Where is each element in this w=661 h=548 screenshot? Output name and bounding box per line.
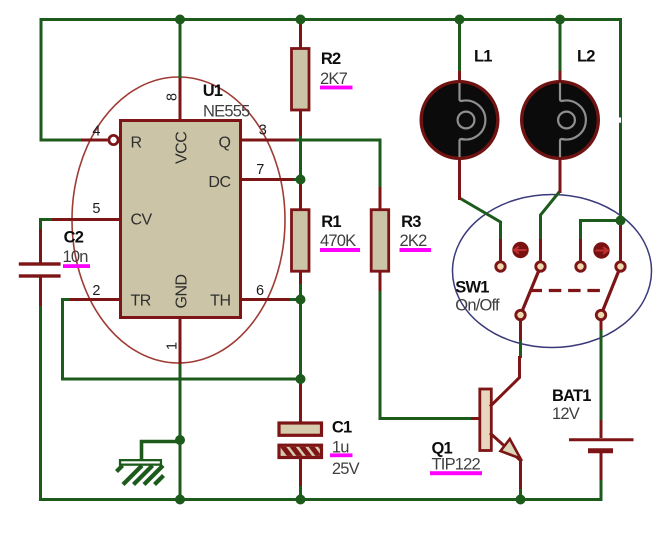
wire: VCC top rail from left rail corner to right drop (41, 20, 621, 225)
wire: ground symbol branch (142, 442, 181, 461)
svg-text:DC: DC (208, 174, 230, 191)
junction dot bottom rail at GND (175, 495, 185, 505)
SW1 gang dashed link (530, 289, 607, 292)
svg-text:C1: C1 (332, 419, 352, 437)
SW1 knob 2 with right arrow (593, 242, 609, 258)
svg-text:5: 5 (92, 201, 100, 217)
wire: switch pole 1 to Q1 collector (519, 338, 522, 358)
battery BAT1 (569, 420, 634, 480)
wire: pin 6 TH to node (288, 298, 301, 301)
wire: switch pole 2 to battery positive (600, 328, 603, 421)
U1 pin 6 TH stub (241, 298, 290, 301)
svg-text:Q: Q (219, 135, 231, 152)
svg-text:BAT1: BAT1 (552, 387, 591, 405)
junction dot VCC rail at L2 (555, 15, 565, 25)
junction dot bottom rail at Q1 emitter (516, 495, 526, 505)
wire: CV to C2 (41, 220, 53, 232)
underline 10n (63, 264, 90, 268)
svg-text:TH: TH (210, 293, 230, 310)
svg-text:25V: 25V (332, 460, 360, 478)
svg-text:3: 3 (259, 123, 267, 139)
transistor Q1 TIP122 (471, 356, 521, 489)
svg-text:NE555: NE555 (203, 103, 250, 121)
U1 pin 7 DC stub (241, 178, 294, 181)
svg-text:R: R (131, 135, 142, 152)
U1 pin 8 VCC stub (179, 78, 182, 120)
resistor R1 body (292, 180, 310, 284)
wire: L1 top to rail (458, 20, 461, 74)
junction dot VCC rail at pin 8 (175, 15, 185, 25)
SW1 pole 1 bottom stub (519, 319, 522, 340)
svg-text:2K2: 2K2 (400, 232, 428, 250)
U1 pin 5 CV stub (52, 218, 120, 221)
SW1 throw 3 pin stub (579, 239, 582, 262)
SW1 throw 1 pin stub (499, 239, 502, 262)
resistor R3 body (371, 187, 389, 291)
U1 pin 1 GND stub (179, 317, 182, 364)
annotation ellipse around SW1 (453, 195, 652, 348)
lamp L1 (421, 71, 498, 200)
svg-text:2K7: 2K7 (320, 70, 348, 88)
svg-text:SW1: SW1 (455, 279, 489, 297)
junction dot TR feedback node (296, 374, 306, 384)
switch SW1 (496, 225, 625, 340)
svg-text:L2: L2 (577, 48, 595, 66)
svg-text:R1: R1 (321, 213, 341, 231)
SW1 knob 1 with left arrow (512, 242, 528, 258)
Q1 emitter lead (490, 433, 521, 489)
capacitor C1 polarized (279, 380, 330, 486)
svg-text:R3: R3 (401, 213, 421, 231)
ground symbol (117, 459, 164, 485)
wire: C1 bottom to rail (299, 484, 302, 500)
underline 1u (330, 453, 353, 457)
IC U1 NE555 timer body (121, 121, 241, 318)
wire: L2 top to rail (559, 20, 562, 74)
svg-text:6: 6 (256, 283, 264, 299)
underline TIP122 (430, 471, 482, 475)
lamp L2 (522, 71, 599, 193)
SW1 throw 4 pin stub (619, 225, 622, 262)
junction dot DC node (296, 175, 306, 185)
svg-text:VCC: VCC (174, 132, 191, 164)
wire: switch throw 3 tap to right rail (581, 221, 621, 241)
wire: VCC drop to pin 8 (179, 20, 182, 80)
svg-text:CV: CV (131, 212, 153, 229)
svg-text:1: 1 (165, 342, 181, 350)
U1 pin 3 Q stub (241, 139, 296, 142)
svg-text:L1: L1 (474, 48, 492, 66)
SW1 terminal circles (496, 262, 505, 271)
resistor R2 body (292, 21, 310, 136)
wire hop notch on right rail (619, 118, 621, 123)
svg-text:470K: 470K (320, 232, 356, 250)
junction dot bottom rail at C1 (296, 495, 306, 505)
U1 pin 4 R stub with inversion bubble (81, 135, 118, 144)
wire: Q1 emitter to bottom rail (519, 488, 522, 500)
Q1 emitter arrow (501, 439, 521, 459)
junction dot right rail tap (616, 216, 626, 226)
junction dot ground branch (175, 435, 185, 445)
wire: pin 3 Q output to R3 (294, 140, 380, 189)
underline 2K2 (400, 248, 432, 252)
SW1 pole 2 bottom stub (600, 319, 603, 330)
SW1 throw 2 pin stub (539, 239, 542, 262)
Q1 base bar (480, 389, 492, 451)
svg-text:On/Off: On/Off (455, 297, 500, 315)
wire: L2 bottom to switch throw 2 (541, 191, 561, 240)
wire: R1 bottom node down to C1 node (299, 283, 302, 383)
wire: TR feedback loop (63, 300, 301, 380)
wire: pin 1 GND down to bottom rail (179, 362, 182, 500)
svg-text:TIP122: TIP122 (432, 456, 481, 474)
wire: C2 bottom to ground rail, bottom rail to battery (41, 304, 602, 500)
junction dot TH node (296, 295, 306, 305)
underline 2K7 (320, 86, 353, 90)
svg-text:10n: 10n (63, 248, 89, 266)
underline 470K (320, 248, 360, 252)
junction dot VCC rail at R2 (296, 15, 306, 25)
capacitor C2 plates (19, 229, 61, 306)
wire: R3 bottom to Q1 base (380, 289, 471, 419)
Q1 base pin stub (471, 417, 480, 420)
svg-text:U1: U1 (203, 82, 223, 100)
svg-text:2: 2 (92, 283, 100, 299)
svg-text:C2: C2 (64, 229, 84, 247)
SW1 pole 1 arm (521, 267, 541, 316)
wire: pin 7 DC to node (292, 178, 301, 181)
Q1 collector lead (490, 356, 520, 407)
svg-text:7: 7 (256, 162, 264, 178)
annotation ellipse around U1 (72, 77, 285, 363)
SW1 pole 2 arm (601, 267, 621, 316)
junction dot VCC rail at L1 (455, 15, 465, 25)
wire: R2 bottom to R1 top node (299, 134, 302, 181)
wire: left rail to pin 4 (R) (40, 139, 82, 142)
svg-text:8: 8 (165, 93, 181, 101)
U1 pin 2 TR stub (70, 298, 120, 301)
wire: L1 bottom to switch throw 1 (460, 198, 501, 240)
svg-text:TR: TR (131, 293, 151, 310)
svg-text:GND: GND (174, 274, 191, 308)
svg-text:R2: R2 (321, 50, 341, 68)
svg-text:4: 4 (92, 124, 100, 140)
svg-text:12V: 12V (552, 405, 580, 423)
